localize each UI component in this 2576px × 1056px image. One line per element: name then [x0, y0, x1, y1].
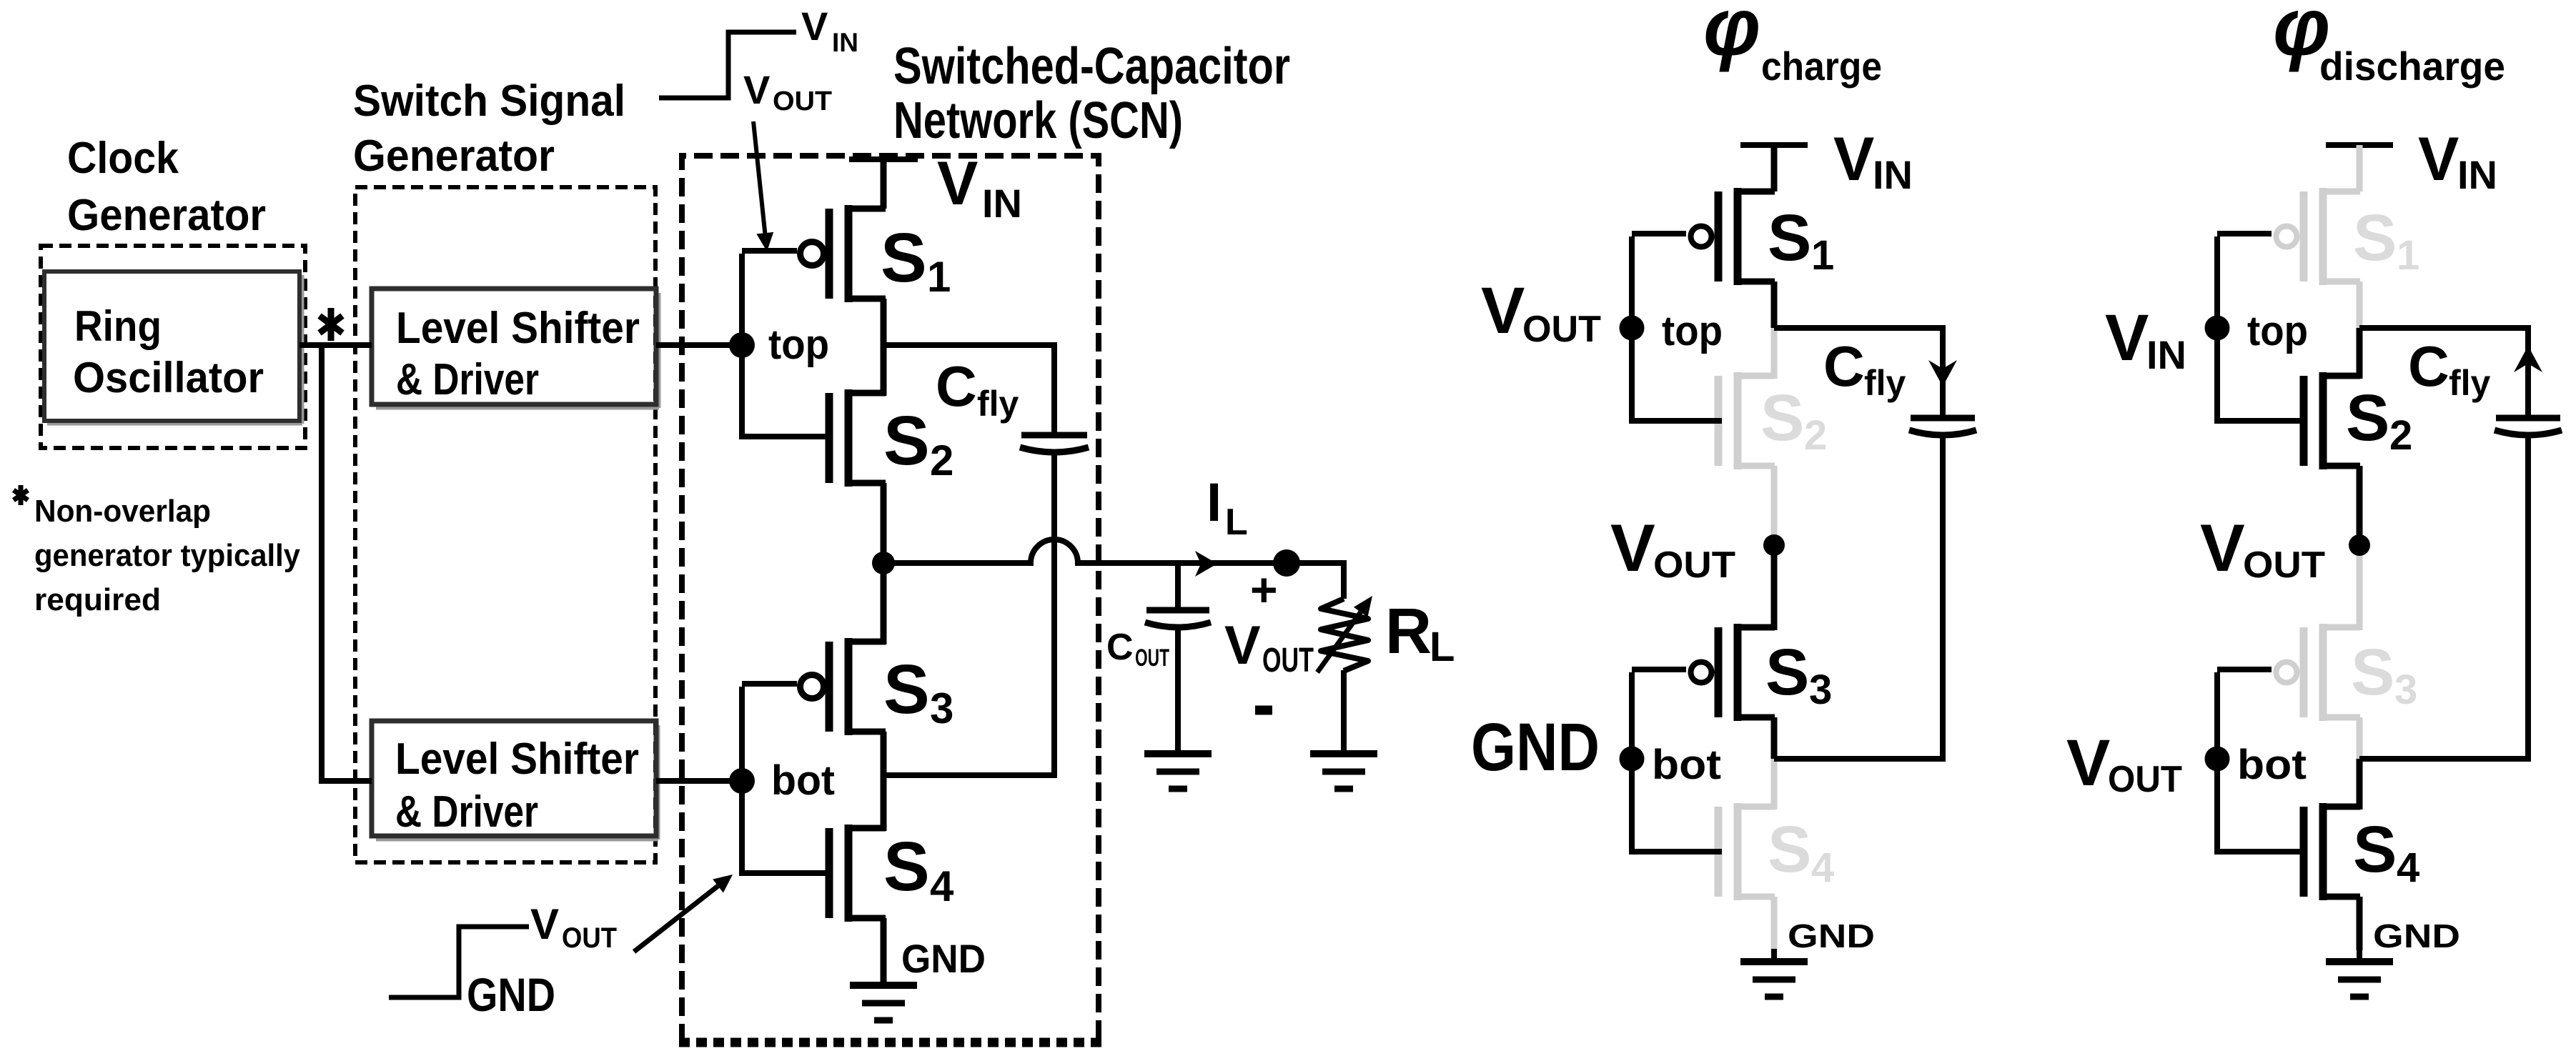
svg-text:V: V [1833, 125, 1874, 194]
svg-text:GND: GND [1788, 917, 1875, 955]
svg-text:OUT: OUT [1653, 544, 1735, 586]
svg-text:V: V [2418, 125, 2459, 194]
svg-text:S: S [883, 650, 930, 728]
svg-text:S: S [1768, 201, 1811, 274]
svg-text:V: V [530, 900, 559, 948]
svg-text:top: top [2247, 308, 2308, 354]
svg-text:1: 1 [1811, 232, 1834, 279]
svg-text:S: S [881, 219, 927, 297]
svg-text:4: 4 [2397, 845, 2419, 891]
svg-text:Non-overlap: Non-overlap [34, 494, 211, 529]
svg-text:2: 2 [1804, 412, 1827, 459]
svg-text:C: C [2408, 334, 2449, 398]
svg-text:IN: IN [2146, 332, 2186, 377]
svg-text:3: 3 [1809, 667, 1832, 713]
svg-text:Switched-Capacitor: Switched-Capacitor [893, 38, 1290, 95]
svg-text:& Driver: & Driver [395, 787, 538, 837]
svg-text:Network (SCN): Network (SCN) [893, 92, 1183, 149]
svg-text:Level Shifter: Level Shifter [395, 734, 639, 784]
svg-text:V: V [1224, 615, 1261, 676]
svg-text:IN: IN [832, 28, 858, 57]
svg-text:bot: bot [2237, 742, 2307, 788]
svg-text:R: R [1385, 596, 1432, 667]
svg-text:V: V [2200, 510, 2245, 585]
svg-text:Generator: Generator [67, 191, 266, 240]
svg-text:fly: fly [2449, 363, 2491, 403]
svg-text:C: C [1823, 334, 1865, 398]
svg-text:bot: bot [1652, 742, 1721, 788]
svg-text:IN: IN [2457, 152, 2497, 197]
svg-text:S: S [1760, 382, 1804, 454]
svg-text:Clock: Clock [67, 134, 179, 183]
svg-text:& Driver: & Driver [396, 355, 539, 404]
svg-text:fly: fly [1864, 363, 1906, 403]
svg-text:Level Shifter: Level Shifter [396, 304, 640, 353]
svg-text:OUT: OUT [1262, 642, 1314, 679]
svg-text:4: 4 [1811, 845, 1834, 891]
svg-text:required: required [34, 582, 161, 617]
svg-text:top: top [768, 322, 829, 368]
svg-text:OUT: OUT [562, 922, 617, 954]
svg-text:V: V [2066, 727, 2110, 800]
svg-text:S: S [883, 402, 930, 479]
svg-text:L: L [1430, 624, 1455, 670]
svg-text:bot: bot [771, 757, 835, 804]
svg-text:S: S [883, 827, 930, 905]
svg-text:C: C [1106, 627, 1134, 668]
svg-text:I: I [1207, 472, 1222, 533]
svg-text:S: S [1765, 636, 1809, 709]
svg-text:L: L [1225, 502, 1248, 543]
svg-text:S: S [2353, 813, 2397, 886]
svg-text:V: V [1481, 274, 1525, 347]
svg-text:4: 4 [930, 862, 954, 910]
svg-text:2: 2 [2389, 412, 2412, 459]
svg-text:Ring: Ring [74, 302, 162, 350]
svg-text:fly: fly [977, 384, 1019, 424]
svg-text:V: V [1610, 510, 1655, 585]
svg-text:GND: GND [1471, 709, 1600, 785]
svg-text:discharge: discharge [2319, 44, 2505, 89]
svg-text:OUT: OUT [1135, 644, 1169, 672]
svg-text:C: C [936, 354, 977, 418]
svg-text:top: top [1662, 308, 1723, 354]
svg-text:GND: GND [901, 936, 986, 981]
svg-text:GND: GND [467, 968, 555, 1021]
svg-text:V: V [801, 4, 828, 49]
svg-text:OUT: OUT [773, 86, 832, 116]
svg-text:S: S [2351, 636, 2394, 709]
svg-text:1: 1 [927, 253, 951, 301]
svg-text:S: S [2346, 382, 2389, 454]
svg-text:OUT: OUT [2108, 759, 2182, 800]
svg-text:S: S [1768, 813, 1811, 886]
svg-text:generator typically: generator typically [34, 538, 300, 573]
svg-text:+: + [1250, 563, 1278, 616]
svg-text:φ: φ [1703, 0, 1760, 73]
svg-text:IN: IN [982, 181, 1022, 226]
svg-text:Switch Signal: Switch Signal [353, 76, 625, 126]
svg-text:OUT: OUT [2243, 544, 2325, 586]
svg-text:3: 3 [2394, 667, 2417, 713]
svg-text:Generator: Generator [353, 131, 555, 181]
svg-text:OUT: OUT [1522, 309, 1601, 350]
svg-text:S: S [2353, 201, 2397, 274]
svg-text:3: 3 [930, 684, 953, 732]
svg-text:1: 1 [2397, 232, 2419, 279]
svg-text:V: V [2105, 302, 2149, 374]
svg-text:IN: IN [1873, 152, 1913, 197]
svg-text:V: V [743, 67, 770, 112]
svg-text:2: 2 [930, 437, 953, 484]
svg-text:Oscillator: Oscillator [73, 354, 264, 402]
svg-text:charge: charge [1761, 44, 1882, 89]
svg-text:GND: GND [2373, 917, 2460, 955]
svg-text:V: V [937, 149, 978, 218]
